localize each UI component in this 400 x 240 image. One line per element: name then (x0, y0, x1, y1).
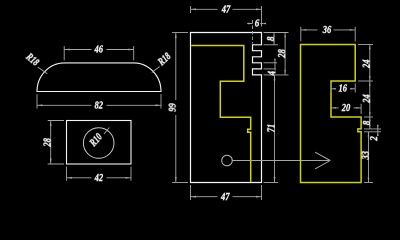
leader R18 left (23, 51, 47, 74)
dim 47 bottom line (191, 196, 262, 198)
dim 36 extension lines (301, 27, 355, 42)
svg-text:82: 82 (95, 99, 104, 111)
front view outline with comb teeth (middle) (191, 33, 262, 183)
dim 42 arrows (67, 177, 132, 179)
dim 47 top extension lines (191, 6, 262, 27)
dim 46 line (64, 49, 134, 51)
svg-text:99: 99 (167, 103, 179, 112)
dim 20 line (331, 107, 361, 109)
dim 24 upper (369, 45, 371, 82)
svg-text:28: 28 (41, 138, 53, 148)
svg-text:46: 46 (94, 43, 104, 55)
dim 99 arrows (175, 33, 177, 183)
dim 82 line (37, 104, 161, 106)
svg-text:28: 28 (276, 49, 288, 59)
dim 47 top arrows (191, 8, 262, 10)
dim 47 bottom extension lines (191, 185, 262, 200)
svg-text:36: 36 (322, 24, 332, 36)
dim 33 (368, 132, 370, 183)
dim 20 extension line (360, 104, 362, 114)
dim 4 (tooth) (274, 59, 276, 70)
svg-text:8: 8 (361, 120, 373, 125)
rectangle view (bottom left) (67, 121, 132, 165)
dim 20 arrows (331, 107, 361, 109)
svg-text:24: 24 (361, 59, 373, 69)
dim 99 line (175, 33, 177, 183)
svg-text:24: 24 (361, 94, 373, 104)
dim 46 extension lines (64, 46, 134, 60)
dim 24 lower (369, 81, 371, 117)
small hole circle (222, 155, 233, 166)
leader R18 right (152, 51, 174, 72)
dim 28 (comb region) (284, 33, 286, 75)
dim 6 dashed extension (252, 20, 254, 44)
svg-text:2: 2 (368, 136, 380, 142)
dim 47 top line (191, 8, 262, 10)
dome profile (top view, left) (37, 63, 161, 92)
dim 42 line (67, 177, 132, 179)
hidden contour (yellow) in front view (191, 46, 250, 182)
svg-text:20: 20 (341, 102, 351, 114)
dim 28 (rect) line (50, 121, 52, 165)
dim 28 (rect) extension lines (48, 121, 64, 165)
section arrow line (232, 152, 330, 169)
R10 leader (104, 128, 109, 135)
dim 6 line and arrows (247, 23, 263, 25)
svg-text:47: 47 (220, 191, 230, 203)
dim 2 (notch) (377, 125, 379, 136)
dim 42 extension lines (67, 167, 132, 181)
dim 99 extension lines (172, 33, 188, 183)
svg-text:47: 47 (221, 3, 231, 15)
dim 16 line (331, 88, 355, 90)
svg-text:33: 33 (360, 151, 372, 161)
dim 8 (comb top) (273, 33, 275, 45)
dim 16 arrows (331, 88, 355, 90)
svg-text:42: 42 (94, 172, 104, 184)
right side extension lines of side view (358, 45, 381, 183)
dim 36 arrows (301, 29, 355, 31)
side view profile (yellow, right) (301, 45, 362, 183)
svg-text:71: 71 (266, 124, 278, 133)
dim 71 (274, 75, 276, 183)
dim 82 extension lines (37, 94, 161, 109)
svg-text:4: 4 (266, 71, 278, 77)
circle R10 (83, 128, 114, 159)
svg-text:8: 8 (265, 36, 277, 41)
dim 8 (side view) (369, 117, 371, 129)
dim 82 arrows (37, 104, 161, 106)
svg-text:6: 6 (255, 18, 260, 30)
right side extension lines of front view (264, 33, 289, 183)
dim 46 arrows (64, 49, 134, 51)
dim 36 line (301, 29, 355, 31)
dim 16 extension lines (331, 84, 355, 93)
svg-text:16: 16 (339, 83, 348, 95)
dim 47 bottom arrows (191, 196, 262, 198)
dim 28 (rect) arrows (50, 121, 52, 165)
